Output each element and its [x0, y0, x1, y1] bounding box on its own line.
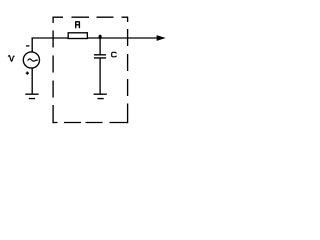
label R	[76, 22, 80, 28]
voltage source V1 circle	[23, 52, 39, 68]
arrowhead	[157, 35, 166, 41]
resistor R	[68, 33, 87, 39]
wire resistor to arrow	[88, 37, 158, 39]
label v	[8, 56, 14, 62]
plus sign	[26, 72, 29, 75]
minus sign	[26, 45, 29, 47]
wire source to resistor	[32, 37, 68, 39]
ground (source)	[25, 94, 38, 98]
dashed enclosure box	[52, 17, 128, 124]
ground (capacitor)	[94, 94, 107, 98]
node junction dot	[99, 35, 102, 39]
capacitor C plates	[94, 55, 106, 58]
wire junction to capacitor	[99, 38, 101, 55]
wire source top lead	[31, 38, 33, 52]
wire capacitor to ground	[99, 58, 101, 94]
label C	[112, 52, 117, 57]
sine symbol	[28, 59, 38, 61]
wire source bottom lead	[31, 68, 33, 94]
